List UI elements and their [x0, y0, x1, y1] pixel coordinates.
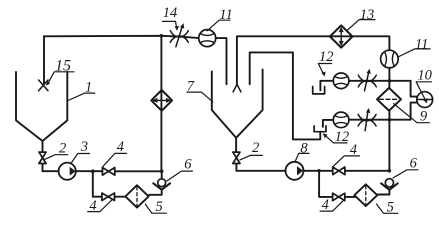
wire: gauge bypass loop: [389, 81, 417, 120]
node: branch split left: [91, 169, 95, 173]
label 12 (upper): [319, 49, 334, 65]
label 11 (right): [415, 36, 428, 52]
leader for label 1: [68, 93, 95, 100]
leader for label 7: [187, 92, 213, 102]
leader for label 9: [394, 104, 430, 123]
valve 4 (upper right): [333, 167, 345, 175]
filter 5 (left): [125, 185, 148, 207]
wire: pump 3 outlet: [76, 170, 103, 172]
leader for label 5 right: [377, 204, 399, 213]
leader for label 8: [295, 153, 309, 161]
label 2 (right): [252, 140, 259, 156]
svg-text:2: 2: [59, 140, 66, 156]
valve 4 (upper left): [102, 168, 114, 176]
drain cup (lower): [314, 126, 326, 132]
label 9: [420, 109, 428, 125]
valve 2 (tank 7 outlet): [233, 152, 240, 163]
wire: pipe down to drain mark 15: [43, 36, 45, 83]
valve 2 (tank 1 outlet): [39, 152, 46, 163]
wire: right vertical main: [388, 68, 390, 171]
wire: right circuit top line: [237, 36, 390, 84]
wire: valve 4 to right junction: [345, 170, 390, 172]
leader for label 6 left: [167, 171, 193, 181]
leader for label 4 upper left: [103, 153, 127, 166]
rotameter 12 (lower): [333, 112, 349, 128]
label 4 (upper left): [117, 139, 124, 155]
svg-text:14: 14: [163, 5, 178, 21]
label 1: [85, 80, 92, 96]
leader for label 15: [48, 72, 75, 85]
wire: filter 5 to check valve 6: [149, 190, 162, 195]
leader for label 4 upper right: [333, 156, 359, 167]
label 4 (lower right): [322, 197, 329, 213]
valve 4 (lower right): [333, 193, 345, 201]
label 4 (upper right): [350, 142, 357, 158]
node: top-left junction: [160, 34, 164, 38]
check valve 6 (right): [385, 179, 393, 187]
filter 5 (right): [354, 184, 377, 206]
wire: left top line: [44, 36, 199, 38]
wire: check valve to filter 5 right: [378, 190, 390, 195]
throttle (upper right): [358, 71, 376, 91]
leader for label 10: [416, 82, 431, 101]
wire: lower throttle branch: [323, 120, 390, 127]
label 14: [163, 5, 178, 21]
wire: tank 7 outlet to pump 8: [236, 164, 285, 171]
svg-text:10: 10: [417, 67, 432, 83]
leader for label 4 lower right: [320, 200, 343, 211]
label 5 (left): [156, 199, 163, 215]
wire: upper throttle branch: [320, 81, 389, 91]
svg-text:11: 11: [415, 36, 428, 52]
pump 3: [59, 163, 76, 180]
pressure gauge 10: [417, 92, 433, 108]
label 12 (lower): [335, 129, 350, 145]
drain cup (upper): [313, 87, 325, 94]
svg-text:13: 13: [360, 7, 375, 23]
nozzle into tank 7: [233, 84, 241, 92]
leader for label 12 lower: [325, 135, 347, 143]
wire: left circuit discharge into tank 7: [216, 38, 227, 84]
svg-text:12: 12: [319, 49, 334, 65]
svg-text:6: 6: [184, 157, 192, 173]
pump 8: [286, 162, 304, 180]
valve 4 (lower left): [102, 193, 115, 201]
node: upper branch junction: [388, 79, 392, 83]
node: lower branch junction: [388, 118, 392, 122]
leader for label 11: [207, 20, 230, 31]
label 15: [55, 57, 71, 74]
leader for label 2: [45, 155, 68, 160]
label 10: [417, 67, 432, 83]
leader for label 4 lower left: [88, 200, 112, 212]
leader for label 12 upper: [318, 64, 331, 75]
rotameter 11 (right): [381, 50, 399, 68]
wire: left vertical main: [160, 36, 162, 172]
leader for label 2 right: [240, 155, 263, 160]
throttle (lower right): [358, 110, 376, 131]
node: riser junction: [160, 170, 164, 174]
tank 7: [212, 70, 263, 153]
leader for label 14: [162, 21, 176, 28]
label 11 (top left): [219, 7, 232, 23]
label 6 (right): [410, 156, 418, 172]
wire: valve to filter 5: [115, 196, 126, 198]
heat exchanger (diamond with horizontal arrows): [151, 90, 172, 111]
check valve 6 (left): [161, 171, 163, 179]
throttle 14: [170, 25, 188, 47]
leader for label 11 right: [398, 49, 430, 57]
tank 1: [16, 72, 67, 152]
leader for label 6 right: [393, 170, 418, 178]
label 5 (right): [387, 200, 394, 216]
rotameter 11 (left): [199, 30, 216, 47]
wire: return line into tank 7: [250, 52, 321, 139]
svg-text:5: 5: [156, 199, 163, 215]
wire: lower bypass branch right: [319, 171, 333, 197]
wire: tank1 outlet to pump 3: [43, 164, 59, 172]
rotameter 12 (upper): [333, 73, 349, 89]
svg-text:8: 8: [300, 141, 308, 157]
node: branch split right: [317, 169, 321, 173]
leader for label 3: [72, 154, 90, 163]
wire: valve 4 to riser junction: [115, 170, 162, 172]
label 7: [187, 79, 195, 95]
wire: lower bypass branch left: [93, 171, 102, 196]
filter 9 (diamond with dashed line): [377, 88, 401, 111]
drain cross 15: [39, 80, 48, 91]
label 2 (left): [59, 140, 66, 156]
svg-text:2: 2: [252, 140, 259, 156]
wire: valve to filter 5 right: [345, 196, 356, 198]
label 3: [80, 139, 88, 155]
wire: pump 8 outlet: [304, 170, 333, 172]
svg-text:3: 3: [80, 139, 88, 155]
label 13: [360, 7, 375, 23]
leader for label 13: [347, 20, 376, 31]
filter 13 (diamond with vertical arrows): [330, 25, 353, 47]
label 8: [300, 141, 308, 157]
node: right bottom junction: [388, 169, 392, 173]
label 6 (left): [184, 157, 192, 173]
label 4 (lower left): [89, 198, 96, 214]
leader for label 5 left: [145, 204, 166, 213]
